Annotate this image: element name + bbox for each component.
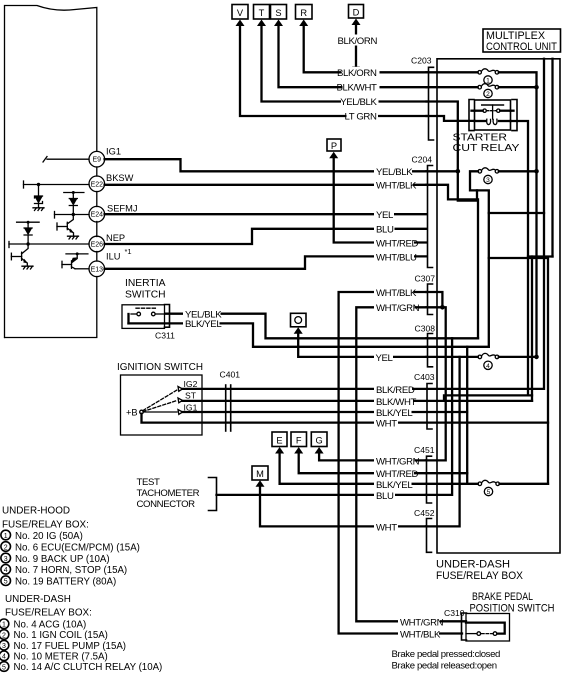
interior riser V531 xyxy=(531,257,533,401)
box M xyxy=(252,466,268,480)
fuse 4 xyxy=(478,355,482,359)
svg-text:BLK/YEL: BLK/YEL xyxy=(185,319,222,330)
box P xyxy=(327,139,341,151)
label BLK/YEL at C403 xyxy=(374,407,412,417)
connector E9 xyxy=(89,151,105,167)
wire riser V467 linking BLK/YEL rows to WHT/RED C451 xyxy=(466,347,468,484)
wire YEL/BLK C203 row down the box to YEL/BLK C204 row xyxy=(427,102,478,201)
legend fuse 5 under-dash xyxy=(0,662,9,672)
label WHT/GRN at C307 xyxy=(374,302,415,312)
wire BLK/RED: IG2 to C403 xyxy=(183,388,544,390)
fuse 1 xyxy=(478,71,482,75)
connector C308 bracket xyxy=(428,334,433,367)
svg-text:C308: C308 xyxy=(415,324,436,334)
arrow into O xyxy=(294,327,303,334)
svg-text:G: G xyxy=(315,435,322,445)
label BLK/WHT at C203 xyxy=(343,82,380,93)
svg-text:2: 2 xyxy=(2,632,6,639)
svg-text:C401: C401 xyxy=(220,370,241,380)
legend fuse 2 under-dash xyxy=(0,630,9,640)
connector C451 bracket xyxy=(427,456,432,503)
wire BKSW/WHT BLK: E22 to C204 xyxy=(105,184,427,186)
svg-text:3: 3 xyxy=(2,643,6,650)
label BLK/ORN at C203 xyxy=(341,67,380,78)
svg-text:SEFMJ: SEFMJ xyxy=(107,204,137,214)
wire fuse4 to bus junction xyxy=(499,356,537,358)
relay contact xyxy=(475,110,483,112)
connector E22 xyxy=(89,176,105,192)
svg-text:BLK/WHT: BLK/WHT xyxy=(376,397,417,408)
zener circuit on BKSW: tick, junction, zener diode, ground xyxy=(23,181,25,188)
wire WHT/GRN from C307 down-left, to brake switch (vertical x=356.3) xyxy=(356,307,466,621)
svg-text:C451: C451 xyxy=(414,445,435,455)
connector C204 bracket xyxy=(428,166,433,268)
connector C203 bracket xyxy=(429,67,434,140)
svg-text:UNDER-DASH: UNDER-DASH xyxy=(5,594,71,605)
wire NEP/BLU: E26 to C204 (steps up at x=252) xyxy=(105,229,427,244)
test tachometer bracket xyxy=(209,478,217,511)
svg-text:WHT/RED: WHT/RED xyxy=(376,238,419,249)
relay coil xyxy=(475,120,487,122)
label BLK/RED at C403 xyxy=(374,384,412,394)
box O xyxy=(291,313,307,327)
svg-text:WHT/RED: WHT/RED xyxy=(376,469,419,480)
svg-text:WHT/BLK: WHT/BLK xyxy=(376,288,417,299)
fuse 2 xyxy=(478,85,482,89)
svg-text:IGNITION SWITCH: IGNITION SWITCH xyxy=(117,362,203,373)
svg-text:V: V xyxy=(237,8,244,18)
svg-text:D: D xyxy=(353,7,360,17)
svg-text:F: F xyxy=(296,435,302,445)
wire YEL/BLK: T down to C203 xyxy=(262,24,427,102)
svg-text:1: 1 xyxy=(2,622,6,629)
wire BLK/YEL: E down to C451 row xyxy=(280,452,426,484)
label WHT/BLU at C204 xyxy=(374,251,414,262)
svg-text:No. 17 FUEL PUMP (15A): No. 17 FUEL PUMP (15A) xyxy=(14,641,127,652)
svg-text:M: M xyxy=(256,469,264,479)
wire BLK/YEL from inertia switch down to row347 xyxy=(129,323,427,346)
starter cut relay box xyxy=(475,100,511,130)
interior link H395.4 xyxy=(444,395,532,401)
svg-text:2: 2 xyxy=(486,91,490,98)
svg-text:3: 3 xyxy=(486,177,490,184)
svg-text:YEL: YEL xyxy=(376,210,394,221)
label BLK/WHT at C403 xyxy=(374,396,413,406)
wire YEL: O down to C308 row xyxy=(298,332,426,357)
wire WHT: M down to C452 row xyxy=(260,485,426,526)
wire fuse2 to bus junction xyxy=(499,86,536,88)
svg-text:C403: C403 xyxy=(414,372,435,382)
svg-text:WHT/GRN: WHT/GRN xyxy=(400,617,444,628)
svg-text:C311: C311 xyxy=(155,331,175,341)
svg-text:BRAKE PEDAL: BRAKE PEDAL xyxy=(472,591,533,603)
label BLK/YEL at inertia xyxy=(183,319,220,329)
svg-text:T: T xyxy=(259,8,265,18)
svg-text:BLU: BLU xyxy=(376,491,394,502)
brake pedal position switch box xyxy=(466,614,510,642)
svg-text:4: 4 xyxy=(486,363,490,370)
box S xyxy=(271,5,287,20)
wire WHT/BLK C307 stub into box xyxy=(427,292,443,307)
fuse 3 xyxy=(478,170,482,174)
svg-text:WHT: WHT xyxy=(376,419,397,430)
svg-text:LT GRN: LT GRN xyxy=(344,112,376,123)
IG2 contact xyxy=(178,387,183,392)
svg-text:FUSE/RELAY BOX:: FUSE/RELAY BOX: xyxy=(2,520,89,531)
label WHT/GRN at C310 xyxy=(398,616,440,626)
connector E26 xyxy=(89,236,105,252)
svg-text:3: 3 xyxy=(4,556,8,563)
svg-text:No. 6 ECU(ECM/PCM) (15A): No. 6 ECU(ECM/PCM) (15A) xyxy=(15,542,140,553)
svg-text:Brake pedal released:open: Brake pedal released:open xyxy=(392,660,497,671)
transistor circuit on SEFMJ (E24): top bar, zener, transistor, ground xyxy=(54,212,56,219)
under-dash fuse/relay box outline xyxy=(437,59,560,553)
wire fuse3 to bus junction xyxy=(499,170,536,172)
transistor circuit on NEP (E26): top bar, zener, transistor, ground xyxy=(8,242,10,248)
wire YEL C308 row into fuse 4 xyxy=(427,356,478,358)
wire IG1/YEL BLK: E9 to C204 (steps down at x=180.5) xyxy=(105,159,427,171)
svg-text:WHT/BLU: WHT/BLU xyxy=(376,252,417,263)
arrow into V xyxy=(236,20,245,27)
svg-text:ILU: ILU xyxy=(106,252,120,262)
svg-text:POSITION SWITCH: POSITION SWITCH xyxy=(470,603,555,615)
arrow into T xyxy=(257,20,266,27)
svg-text:No. 10 METER (7.5A): No. 10 METER (7.5A) xyxy=(14,652,108,663)
multiplex control unit box xyxy=(483,29,561,52)
label LT GRN at C203 xyxy=(347,111,379,122)
svg-text:5: 5 xyxy=(4,579,8,586)
svg-text:YEL/BLK: YEL/BLK xyxy=(340,97,377,108)
connector C452 bracket xyxy=(427,519,432,553)
svg-text:WHT/GRN: WHT/GRN xyxy=(376,303,420,314)
svg-text:*1: *1 xyxy=(125,247,132,256)
starter cut relay: LT GRN feed xyxy=(427,116,475,121)
svg-text:No. 14 A/C CLUTCH RELAY (10A): No. 14 A/C CLUTCH RELAY (10A) xyxy=(14,662,163,673)
svg-text:No. 1 IGN COIL (15A): No. 1 IGN COIL (15A) xyxy=(14,630,108,641)
wire coil to riser x=528.5 xyxy=(511,121,529,395)
label WHT at C403 xyxy=(374,417,398,427)
wire WHT/RED: P down to row xyxy=(334,157,427,243)
inertia switch contacts xyxy=(127,314,129,323)
svg-text:P: P xyxy=(331,141,337,151)
svg-text:WHT/BLK: WHT/BLK xyxy=(376,181,417,192)
wire YEL/BLK from inertia switch down to row338 xyxy=(166,314,427,339)
svg-text:BLK/WHT: BLK/WHT xyxy=(337,83,378,94)
box D xyxy=(349,5,364,19)
ST contact xyxy=(178,398,183,403)
label YEL at C204 xyxy=(374,209,394,220)
relay armature bar and stem xyxy=(482,104,504,106)
label BLK/ORN under D xyxy=(340,35,380,46)
svg-text:C204: C204 xyxy=(412,155,433,165)
svg-text:No. 9 BACK UP (10A): No. 9 BACK UP (10A) xyxy=(15,554,110,565)
wire ILU/WHT BLU: E13 to C204 (steps up at x=305) xyxy=(105,256,427,268)
starter cut relay bracket right xyxy=(512,100,517,131)
svg-text:E26: E26 xyxy=(91,242,104,249)
svg-text:5: 5 xyxy=(487,489,491,496)
wire BLK/ORN row into fuse 1 xyxy=(427,71,478,73)
svg-text:5: 5 xyxy=(2,664,6,671)
svg-text:No. 19 BATTERY (80A): No. 19 BATTERY (80A) xyxy=(15,577,116,588)
ignition switch box xyxy=(121,375,203,435)
interior link H256.5 xyxy=(528,255,553,257)
svg-text:C203: C203 xyxy=(411,56,432,66)
wire BLK/WHT: ST to C403 xyxy=(183,400,533,402)
label WHT/RED at C451 xyxy=(374,468,414,478)
connector C310 bracket xyxy=(462,613,467,640)
wire SEFMJ/YEL: E24 to C204 xyxy=(105,213,427,215)
wire BLK/YEL inertia row into box to V467 xyxy=(427,346,489,348)
svg-text:E24: E24 xyxy=(91,212,104,219)
svg-text:BLK/ORN: BLK/ORN xyxy=(338,36,378,47)
label WHT/BLK at C307 xyxy=(374,287,414,297)
box E xyxy=(272,432,287,447)
wire fuse1 to bus, corner down xyxy=(499,72,537,357)
IG1 contact xyxy=(178,410,183,415)
arrow into F xyxy=(294,447,303,454)
wire BLK/WHT row into fuse 2 xyxy=(427,86,478,88)
label WHT/BLK at C310 xyxy=(398,628,439,638)
svg-text:IG1: IG1 xyxy=(106,147,121,157)
arrow into R xyxy=(299,20,308,27)
wire WHT/GRN: G down to C451 row xyxy=(319,452,426,460)
connector C311 bracket xyxy=(165,305,170,328)
wire BLK/ORN: D down to junction on BLK/ORN row xyxy=(355,23,357,71)
connector C307 bracket xyxy=(428,284,433,315)
interior link H258 to fuse5 riser xyxy=(489,258,548,484)
svg-text:2: 2 xyxy=(4,544,8,551)
svg-text:E13: E13 xyxy=(91,266,104,273)
svg-text:BLK/ORN: BLK/ORN xyxy=(337,68,377,79)
legend fuse 1 under-dash xyxy=(0,619,9,629)
label YEL at C308 xyxy=(374,352,393,362)
arrow into G xyxy=(315,447,324,454)
dashed throw to IG2 xyxy=(143,390,177,411)
label YEL/BLK at C203 xyxy=(341,96,379,107)
svg-text:WHT: WHT xyxy=(376,522,397,533)
interior link H213 xyxy=(489,212,544,214)
wire WHT/BLK from C307 down-left, to brake switch (vertical x=338.6) xyxy=(339,292,462,634)
junction on YEL/BLK row xyxy=(427,170,457,172)
fuse 5 xyxy=(478,482,482,486)
svg-text:No. 4 ACG (10A): No. 4 ACG (10A) xyxy=(14,620,87,631)
svg-text:1: 1 xyxy=(4,533,8,540)
ECM/PCM left box (torn wavy top edge) xyxy=(5,6,97,338)
svg-text:INERTIA: INERTIA xyxy=(125,278,166,289)
arrow into E xyxy=(275,447,284,454)
junction arrow of D wire onto row xyxy=(352,67,360,73)
box V xyxy=(232,5,248,20)
legend fuse 3 under-dash xyxy=(0,640,9,650)
svg-text:ST: ST xyxy=(185,391,197,401)
svg-text:IG2: IG2 xyxy=(184,379,198,389)
wire riser V460 from YEL row down to WHT C452 row xyxy=(426,357,460,527)
svg-text:YEL/BLK: YEL/BLK xyxy=(376,167,413,178)
wire YEL/BLK inertia row into box xyxy=(427,337,479,339)
brake switch internals: bar, contacts, dashes xyxy=(466,623,505,634)
wire fuse5 to riser x=548 xyxy=(500,483,549,485)
connector C403 bracket xyxy=(427,384,432,430)
wire WHT/RED C451 out of box xyxy=(426,472,467,474)
svg-text:E: E xyxy=(276,435,282,445)
svg-text:E22: E22 xyxy=(91,181,104,188)
svg-text:4: 4 xyxy=(4,567,8,574)
svg-text:+B: +B xyxy=(126,408,138,418)
label WHT at C452 xyxy=(374,521,398,531)
starter cut relay bracket left xyxy=(469,100,474,131)
box F xyxy=(291,432,307,447)
wire WHT/BLK C204 path down to inertia YEL/BLK row xyxy=(427,185,479,338)
svg-text:UNDER-DASH: UNDER-DASH xyxy=(436,559,510,571)
dashed throw to ST xyxy=(143,401,177,412)
legend fuse 3 under-hood xyxy=(1,553,11,563)
svg-text:SWITCH: SWITCH xyxy=(125,290,166,301)
svg-text:FUSE/RELAY BOX: FUSE/RELAY BOX xyxy=(436,570,524,582)
wire WHT/GRN C307 through box down to C451 WHT/GRN xyxy=(426,307,446,460)
svg-text:BKSW: BKSW xyxy=(106,173,134,183)
wire BLK/YEL C451 row into fuse 5 xyxy=(426,483,478,485)
inertia switch box xyxy=(122,305,165,329)
label WHT/RED at C204 xyxy=(374,237,414,248)
svg-text:BLK/RED: BLK/RED xyxy=(376,385,415,396)
wire WHT: +B down then right to C403 and into box xyxy=(142,414,549,423)
label WHT/GRN at C451 xyxy=(374,455,415,465)
svg-text:FUSE/RELAY BOX:: FUSE/RELAY BOX: xyxy=(5,608,92,619)
svg-text:E9: E9 xyxy=(93,157,102,164)
connector E13 xyxy=(89,261,105,277)
relay contact stubs xyxy=(472,110,475,112)
svg-text:C452: C452 xyxy=(414,508,435,518)
legend fuse 1 under-hood xyxy=(1,530,11,540)
connector E24 xyxy=(89,206,105,222)
solid throw to IG1 xyxy=(143,411,177,413)
wire BLK/WHT: S down to C203 xyxy=(279,24,427,87)
wire BLU: from bracket to C451 xyxy=(217,494,427,496)
legend fuse 4 under-dash xyxy=(0,651,9,661)
transistor circuit on ILU (E13): PNP, top bar xyxy=(66,253,88,255)
svg-text:UNDER-HOOD: UNDER-HOOD xyxy=(2,506,70,517)
box T xyxy=(254,5,270,20)
fuse 3 feed corner xyxy=(470,171,489,346)
wire WHT/RED: F down to C451 row xyxy=(299,452,426,473)
svg-text:CONTROL UNIT: CONTROL UNIT xyxy=(486,41,557,53)
svg-text:No. 7 HORN, STOP (15A): No. 7 HORN, STOP (15A) xyxy=(15,565,127,576)
svg-text:S: S xyxy=(275,8,281,18)
box G xyxy=(311,432,327,447)
wire riser V452 from YEL/BLK row down to BLU C451 row xyxy=(426,338,452,495)
svg-text:4: 4 xyxy=(2,654,6,661)
legend fuse 5 under-hood xyxy=(1,576,11,586)
box R xyxy=(296,5,313,20)
svg-text:BLK/YEL: BLK/YEL xyxy=(376,408,413,419)
svg-text:R: R xyxy=(300,8,307,18)
label WHT/BLK at C204 xyxy=(374,180,413,191)
svg-text:BLU: BLU xyxy=(376,225,394,236)
label YEL/BLK at inertia xyxy=(183,309,221,320)
svg-text:NEP: NEP xyxy=(106,233,125,243)
wire LT GRN: V down to C203 xyxy=(240,24,427,116)
svg-text:YEL: YEL xyxy=(376,353,394,364)
legend fuse 4 under-hood xyxy=(1,565,11,575)
svg-text:Brake pedal pressed:closed: Brake pedal pressed:closed xyxy=(392,649,501,660)
arrow into D xyxy=(352,19,361,26)
bus vertical from multiplex x=544 xyxy=(543,59,545,389)
wire BLK/YEL: IG1 to C403 xyxy=(183,411,468,413)
label YEL/BLK at C204 xyxy=(374,166,412,177)
wire IG1 stub inside ECM with break mark xyxy=(47,158,89,160)
label BLK/YEL at C451 xyxy=(374,479,412,489)
label BLU at C204 xyxy=(374,224,395,235)
arrow into S xyxy=(274,20,283,27)
arrow into P xyxy=(329,152,338,159)
wire BLK/ORN: R down to C203 xyxy=(304,24,427,72)
bus vertical from multiplex x=552.5 xyxy=(551,59,553,257)
svg-text:CUT RELAY: CUT RELAY xyxy=(453,143,520,154)
svg-text:C307: C307 xyxy=(415,274,436,284)
svg-text:WHT/GRN: WHT/GRN xyxy=(376,456,420,467)
connector C401 double bracket xyxy=(225,385,227,431)
svg-text:BLK/YEL: BLK/YEL xyxy=(376,480,413,491)
label BLU at C451 xyxy=(374,490,395,500)
svg-text:WHT/BLK: WHT/BLK xyxy=(400,630,441,641)
legend fuse 2 under-hood xyxy=(1,542,11,552)
arrow into M xyxy=(256,480,265,487)
svg-text:No. 20 IG (50A): No. 20 IG (50A) xyxy=(15,531,83,542)
